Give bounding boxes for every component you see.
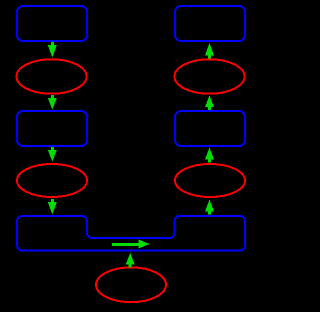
box B3 (bottom stepped blue shape: left block, low channel, right block) bbox=[17, 216, 245, 251]
arrow A1 (green down arrow B1 to E1) bbox=[48, 42, 57, 58]
box B4 (top-right blue rounded rectangle) bbox=[175, 6, 245, 41]
arrow A8 (green up arrow E4 to B5) bbox=[205, 148, 214, 163]
ellipse E1 (left column upper red ellipse) bbox=[17, 59, 87, 94]
ellipse E4 (right column lower red ellipse) bbox=[175, 164, 245, 197]
ellipse E5 (bottom center red ellipse) bbox=[96, 267, 166, 302]
arrow A3 (green down arrow B2 to E2) bbox=[48, 147, 57, 162]
ellipse E3 (right column upper red ellipse) bbox=[175, 59, 245, 94]
arrow A2 (green down arrow E1 to B2) bbox=[48, 95, 57, 110]
box B5 (middle-right blue rounded rectangle) bbox=[175, 111, 245, 146]
ellipse E2 (left column lower red ellipse) bbox=[17, 164, 87, 197]
arrow A10 (green up arrow E3 to B4) bbox=[205, 43, 214, 59]
arrow A9 (green up arrow B5 to E3) bbox=[205, 96, 214, 111]
arrow A7 (green up arrow bottom shape to E4) bbox=[205, 200, 214, 215]
arrow A4 (green down arrow E2 to bottom shape) bbox=[48, 199, 57, 215]
arrow A6 (green right arrow inside bottom channel) bbox=[112, 240, 150, 249]
box B1 (top-left blue rounded rectangle) bbox=[17, 6, 87, 41]
arrow A5 (green up arrow from bottom ellipse E5 into bottom shape) bbox=[126, 253, 135, 268]
box B2 (middle-left blue rounded rectangle) bbox=[17, 111, 87, 146]
